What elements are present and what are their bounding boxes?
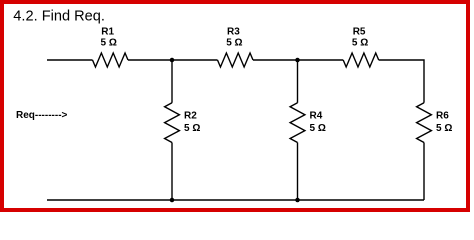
junction node B' (bottom) [295,198,300,203]
junction node B (top) [295,58,300,63]
svg-text:5 Ω: 5 Ω [310,123,326,134]
resistor R2 [165,103,180,143]
resistor R1 [93,53,129,67]
svg-text:5 Ω: 5 Ω [184,123,200,134]
svg-text:R5: R5 [353,27,366,38]
resistor R5 [343,53,379,67]
wire R1 to node A [128,59,218,61]
wire R2 to bottom wire [171,143,173,201]
svg-text:R3: R3 [227,27,240,38]
svg-text:4.2. Find Req.: 4.2. Find Req. [13,8,105,24]
wire node B down to R4 [297,60,299,103]
wire R4 to bottom wire [297,143,299,201]
resistor R6 [417,103,432,143]
svg-text:R6: R6 [436,111,449,122]
wire R6 to bottom-right corner [423,143,425,201]
wire top-left [47,59,93,61]
wire node A down to R2 [171,60,173,103]
svg-text:5 Ω: 5 Ω [436,123,452,134]
wire R3 to node B [253,59,343,61]
bottom wire [47,199,424,201]
svg-text:Req-------->: Req--------> [16,110,68,121]
resistor R4 [290,103,305,143]
junction node A' (bottom) [170,198,175,203]
svg-text:5 Ω: 5 Ω [101,37,117,48]
svg-text:R2: R2 [184,111,197,122]
svg-text:R1: R1 [101,27,114,38]
junction node A (top) [170,58,175,63]
svg-text:R4: R4 [310,111,323,122]
svg-text:5 Ω: 5 Ω [226,37,242,48]
svg-text:5 Ω: 5 Ω [352,37,368,48]
resistor R3 [218,53,254,67]
wire R5 to top-right corner [379,60,424,103]
